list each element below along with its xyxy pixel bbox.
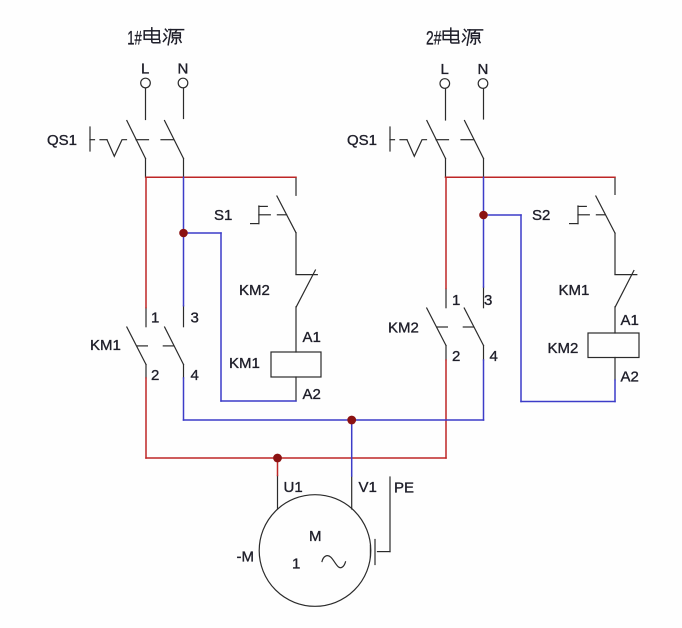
svg-text:3: 3 <box>484 292 492 309</box>
svg-text:A1: A1 <box>303 329 321 346</box>
svg-text:L: L <box>441 61 449 78</box>
svg-text:KM2: KM2 <box>548 340 579 357</box>
svg-text:M: M <box>309 528 322 545</box>
svg-text:1#: 1# <box>127 29 142 50</box>
svg-text:KM2: KM2 <box>239 282 270 299</box>
svg-text:A2: A2 <box>621 369 639 386</box>
svg-text:PE: PE <box>394 480 414 497</box>
svg-text:2#: 2# <box>426 29 442 50</box>
svg-text:KM1: KM1 <box>229 355 260 372</box>
svg-text:2: 2 <box>151 367 159 384</box>
svg-text:KM1: KM1 <box>90 337 121 354</box>
svg-text:1: 1 <box>452 292 460 309</box>
svg-text:QS1: QS1 <box>47 132 77 149</box>
svg-text:1: 1 <box>151 309 159 326</box>
svg-text:2: 2 <box>452 348 460 365</box>
svg-text:KM2: KM2 <box>388 320 419 337</box>
svg-text:KM1: KM1 <box>559 282 590 299</box>
svg-text:1: 1 <box>292 556 300 573</box>
svg-text:L: L <box>141 61 149 78</box>
svg-text:3: 3 <box>191 309 199 326</box>
svg-text:-M: -M <box>237 549 255 566</box>
svg-text:V1: V1 <box>359 479 377 496</box>
svg-text:S1: S1 <box>214 207 232 224</box>
svg-text:S2: S2 <box>532 207 550 224</box>
svg-text:4: 4 <box>191 367 199 384</box>
svg-text:A1: A1 <box>621 312 639 329</box>
svg-text:U1: U1 <box>284 479 303 496</box>
svg-text:A2: A2 <box>303 386 321 403</box>
svg-text:N: N <box>478 61 489 78</box>
svg-text:4: 4 <box>490 348 498 365</box>
svg-text:QS1: QS1 <box>347 132 377 149</box>
svg-text:N: N <box>178 61 189 78</box>
